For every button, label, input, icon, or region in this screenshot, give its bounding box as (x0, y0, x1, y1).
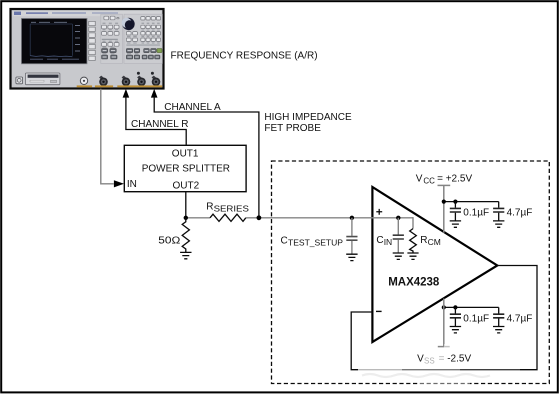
svg-text:FET PROBE: FET PROBE (264, 123, 321, 134)
ground (CIN) (393, 253, 404, 259)
svg-text:4.7µF: 4.7µF (507, 313, 533, 324)
arrowhead into IN (114, 180, 124, 187)
ground (0.1uF VCC) (450, 221, 461, 227)
wire from BNC R to splitter IN (101, 89, 114, 184)
ground (RCM) (407, 253, 418, 259)
instrument CRT screen (21, 18, 87, 63)
node dots VSS rail (442, 305, 446, 309)
svg-text:CHANNEL A: CHANNEL A (164, 102, 221, 113)
wire CHANNEL R (126, 97, 186, 146)
capacitor 4.7uF (VSS) (498, 307, 500, 313)
svg-text:V: V (416, 174, 423, 185)
capacitor 0.1uF (VSS) (454, 307, 456, 313)
capacitor CTEST_SETUP (351, 218, 353, 236)
wire VSS (443, 299, 445, 347)
main signal wire (186, 217, 210, 219)
svg-text:0.1µF: 0.1µF (463, 208, 489, 219)
svg-text:POWER SPLITTER: POWER SPLITTER (142, 164, 230, 175)
wire VSS rail (444, 306, 499, 308)
op-amp - input mark (376, 310, 382, 312)
svg-text:OUT2: OUT2 (173, 180, 200, 191)
resistor RSERIES (210, 214, 246, 221)
capacitor CIN (397, 218, 399, 235)
instrument rotary knob (122, 18, 135, 30)
svg-text:R: R (420, 235, 427, 246)
floppy drive (25, 73, 60, 85)
svg-text:0.1µF: 0.1µF (463, 313, 489, 324)
wire CHANNEL A / FET probe (154, 97, 259, 218)
arrow into CHANNEL R BNC (123, 89, 130, 98)
svg-text:R: R (206, 202, 213, 213)
op-amp + input mark (376, 209, 382, 215)
output and feedback wire (351, 266, 537, 370)
svg-text:C: C (376, 235, 383, 246)
ground (CTEST_SETUP) (346, 254, 357, 260)
svg-text:FREQUENCY RESPONSE (A/R): FREQUENCY RESPONSE (A/R) (171, 51, 318, 62)
orange panel strips (77, 85, 163, 87)
svg-text:4.7µF: 4.7µF (507, 208, 533, 219)
BNC connectors (99, 72, 160, 86)
svg-text:IN: IN (127, 179, 137, 190)
svg-text:IN: IN (384, 237, 393, 247)
VSS terminal bar (438, 346, 450, 348)
instrument softkey column (89, 21, 95, 60)
op-amp U1 MAX4238 (372, 187, 497, 342)
wire VCC rail (444, 201, 499, 203)
svg-text:HIGH IMPEDANCE: HIGH IMPEDANCE (264, 112, 352, 123)
svg-text:TEST_SETUP: TEST_SETUP (288, 237, 343, 247)
svg-text:= +2.5V: = +2.5V (437, 174, 472, 185)
VCC terminal bar (438, 184, 451, 186)
node dots VCC rail (442, 200, 446, 204)
instrument dark keys (102, 49, 160, 59)
svg-text:CC: CC (423, 177, 435, 186)
ground (0.1uF VSS) (450, 327, 461, 333)
instrument keypad panels (101, 14, 123, 63)
svg-text:50Ω: 50Ω (158, 236, 181, 247)
instrument lower area (16, 73, 88, 85)
capacitor 0.1uF (VCC) (454, 202, 456, 208)
svg-text:CHANNEL R: CHANNEL R (131, 119, 188, 130)
arrow into CHANNEL A BNC (151, 89, 158, 98)
ground (4.7uF VCC) (493, 221, 504, 227)
power splitter box (124, 145, 246, 191)
dashed evaluation box (272, 161, 550, 384)
capacitor 4.7uF (VCC) (498, 202, 500, 208)
watermark overlay (358, 344, 520, 386)
small round knob (80, 77, 87, 84)
junction node dots (184, 216, 188, 220)
resistor RCM (412, 217, 414, 229)
ground (4.7uF VSS) (493, 327, 504, 333)
resistor 50 ohm (182, 218, 189, 252)
svg-text:MAX4238: MAX4238 (388, 276, 440, 288)
svg-text:SERIES: SERIES (214, 204, 250, 214)
svg-text:CM: CM (428, 237, 441, 247)
wire VCC (443, 185, 445, 232)
ground (50 ohm) (180, 252, 191, 258)
svg-text:OUT1: OUT1 (172, 148, 199, 159)
svg-text:C: C (281, 235, 288, 246)
network analyzer instrument (11, 9, 164, 89)
wire OUT2 to node (185, 192, 187, 218)
instrument keypad buttons (102, 16, 161, 46)
